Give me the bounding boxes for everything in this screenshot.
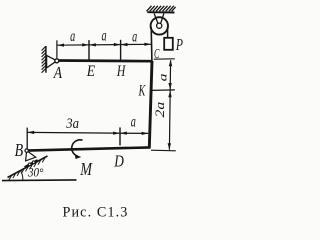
right extension at K level: [152, 89, 175, 92]
pin circle B: [25, 149, 28, 152]
tick at E: [88, 40, 90, 60]
svg-text:a: a: [131, 112, 136, 130]
rope right (to load): [167, 27, 169, 38]
right extension at C level: [154, 58, 175, 60]
svg-text:P: P: [175, 36, 183, 55]
bottom beam B-corner: [27, 147, 151, 150]
pulley U (outer wheel): [151, 17, 168, 34]
svg-text:B: B: [15, 142, 24, 161]
tick at H: [120, 40, 122, 60]
arrowheads bottom dimension: [28, 131, 149, 135]
bottom dimension extension at B: [26, 128, 28, 149]
svg-text:H: H: [116, 63, 126, 80]
roller shoe on incline: [25, 160, 38, 167]
bottom dimension line: [27, 132, 148, 133]
svg-text:30°: 30°: [27, 165, 44, 180]
wall hatching at A: [42, 46, 46, 72]
roller bracket triangle at B: [26, 151, 36, 161]
load P rectangle: [164, 38, 173, 50]
column C-corner: [149, 61, 152, 148]
wall line at A: [45, 46, 47, 73]
svg-text:M: M: [79, 160, 93, 179]
top beam A-C: [57, 59, 153, 62]
pin circle A: [55, 59, 59, 63]
top dimension extension line at A: [56, 40, 58, 58]
svg-text:E: E: [86, 63, 95, 80]
pulley hub: [157, 23, 162, 28]
ceiling hatching: [147, 6, 176, 12]
moment M arc: [72, 140, 83, 156]
right dimension line a/2a: [169, 60, 170, 149]
svg-text:a: a: [132, 27, 137, 45]
svg-text:D: D: [113, 152, 123, 171]
incline surface line: [8, 156, 48, 178]
svg-text:Рис. С1.3: Рис. С1.3: [63, 205, 129, 221]
right extension at bottom corner: [151, 149, 176, 152]
ceiling line: [147, 11, 174, 13]
svg-text:a: a: [102, 26, 107, 44]
arrowheads top dimension: [57, 43, 151, 47]
top dimension line: [57, 43, 151, 46]
svg-text:3a: 3a: [65, 116, 79, 132]
svg-text:2a: 2a: [154, 102, 168, 118]
rope left (to C): [150, 27, 153, 61]
tick at D: [119, 127, 121, 145]
svg-text:A: A: [53, 65, 63, 82]
incline hatching: [9, 158, 45, 181]
ground line: [2, 179, 77, 182]
svg-text:a: a: [157, 73, 170, 81]
arrowheads right dimension: [168, 60, 173, 150]
30 degree angle arc: [20, 170, 23, 180]
moment M arrowhead: [75, 155, 81, 160]
rollers: [28, 163, 31, 166]
pulley bracket: [154, 13, 164, 23]
pin support triangle at A: [47, 55, 57, 68]
svg-text:K: K: [138, 81, 146, 99]
svg-text:a: a: [70, 27, 75, 45]
